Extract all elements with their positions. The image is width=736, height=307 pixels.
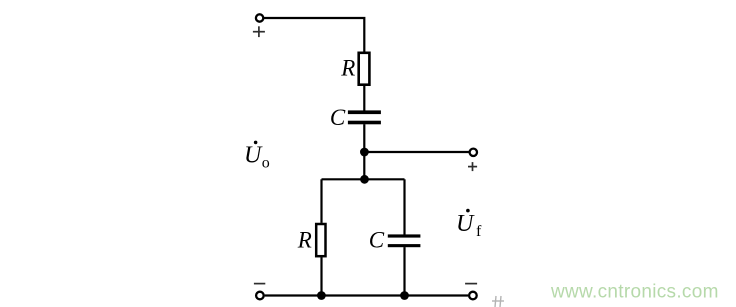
- svg-text:R: R: [297, 228, 312, 253]
- svg-text:o: o: [262, 155, 270, 172]
- svg-text:R: R: [340, 56, 355, 81]
- svg-text:U: U: [244, 143, 263, 169]
- svg-text:C: C: [330, 105, 346, 130]
- svg-text:C: C: [369, 228, 385, 253]
- svg-text:U: U: [456, 211, 475, 237]
- svg-text:www.cntronics.com: www.cntronics.com: [550, 282, 719, 303]
- svg-text:f: f: [476, 223, 482, 240]
